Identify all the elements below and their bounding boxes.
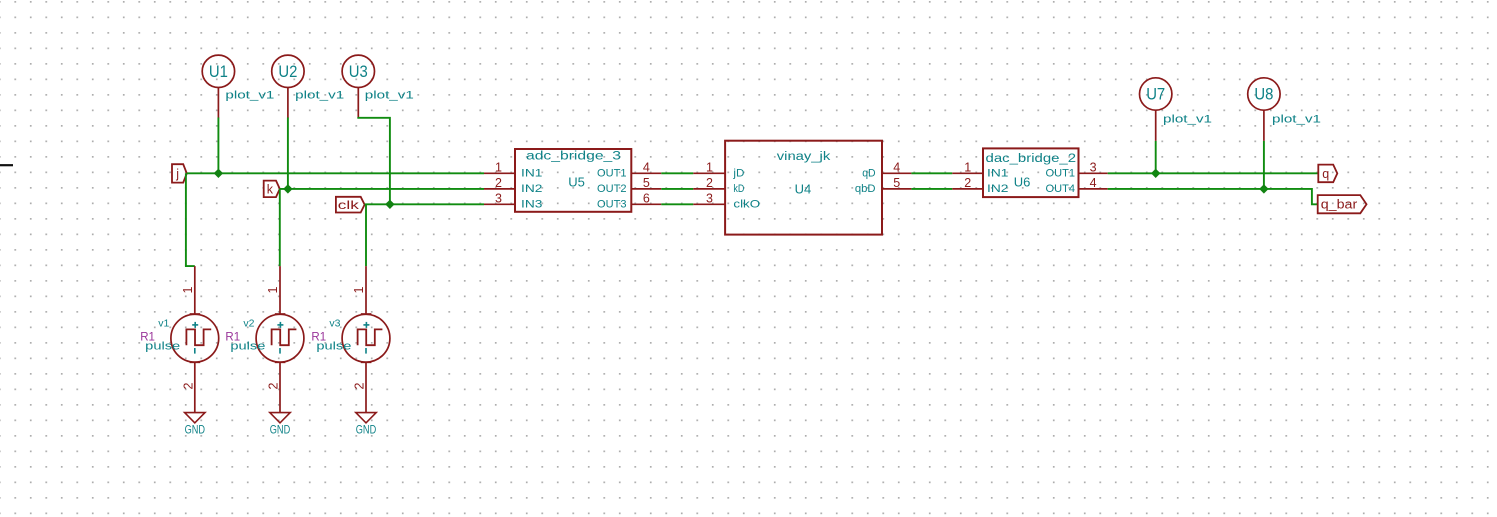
minus mark v1 bbox=[194, 348, 196, 354]
svg-text:qbD: qbD bbox=[855, 183, 876, 195]
svg-text:plot_v1: plot_v1 bbox=[225, 89, 274, 101]
svg-text:2: 2 bbox=[353, 382, 367, 389]
global label k bbox=[264, 181, 280, 198]
pin stub of U3 bbox=[357, 88, 359, 119]
U5 pin 1 stub bbox=[484, 172, 515, 174]
svg-text:plot_v1: plot_v1 bbox=[1272, 114, 1321, 126]
svg-text:1: 1 bbox=[964, 160, 971, 174]
svg-text:OUT2: OUT2 bbox=[597, 183, 627, 195]
svg-text:2: 2 bbox=[706, 176, 713, 190]
U4 pin 2 stub bbox=[693, 188, 725, 190]
svg-text:U6: U6 bbox=[1014, 175, 1031, 190]
pin 2 stub v1 bbox=[194, 362, 196, 412]
svg-text:j: j bbox=[175, 167, 179, 181]
svg-text:1: 1 bbox=[266, 286, 280, 293]
U6 pin 1 stub bbox=[952, 172, 983, 174]
svg-text:2: 2 bbox=[495, 176, 502, 190]
IC U5 adc_bridge_3 body bbox=[515, 149, 631, 212]
svg-text:pulse: pulse bbox=[145, 340, 180, 352]
svg-text:2: 2 bbox=[964, 176, 971, 190]
svg-text:pulse: pulse bbox=[316, 340, 351, 352]
svg-text:q_bar: q_bar bbox=[1321, 198, 1358, 212]
pulse waveform v2 bbox=[272, 329, 297, 345]
wire net j bbox=[187, 172, 484, 174]
ground symbol of v1 bbox=[185, 413, 205, 423]
svg-text:GND: GND bbox=[185, 424, 205, 436]
U6 pin 2 stub bbox=[952, 188, 983, 190]
minus mark v2 bbox=[279, 348, 281, 354]
junction clk/U3 bbox=[385, 200, 394, 209]
svg-text:vinay_jk: vinay_jk bbox=[777, 151, 831, 163]
svg-text:OUT1: OUT1 bbox=[1046, 168, 1076, 180]
svg-text:2: 2 bbox=[267, 382, 281, 389]
terminal bars v1 bbox=[190, 313, 201, 315]
U5 pin 5 stub bbox=[631, 188, 661, 190]
ground symbol of v2 bbox=[270, 413, 290, 423]
pin stub of U7 bbox=[1155, 110, 1157, 141]
wire qbD-in2 bbox=[911, 188, 952, 190]
svg-text:4: 4 bbox=[1090, 176, 1097, 190]
U6 pin 3 stub bbox=[1079, 172, 1108, 174]
svg-text:IN2: IN2 bbox=[987, 183, 1008, 195]
wire U7 drop to q net bbox=[1155, 141, 1157, 173]
wire out3-clko bbox=[661, 203, 693, 205]
junction k/U2 bbox=[283, 184, 292, 193]
wire k to V2 bbox=[279, 189, 281, 266]
svg-text:IN2: IN2 bbox=[521, 183, 542, 195]
svg-text:2: 2 bbox=[182, 382, 196, 389]
wire U3 drop jog bbox=[358, 117, 390, 204]
junction q/U7 bbox=[1151, 169, 1160, 178]
pulse source v2 bbox=[256, 314, 304, 362]
svg-text:plot_v1: plot_v1 bbox=[365, 89, 414, 101]
pin 2 stub v2 bbox=[279, 362, 281, 412]
svg-text:OUT3: OUT3 bbox=[597, 199, 627, 211]
svg-text:adc_bridge_3: adc_bridge_3 bbox=[526, 151, 621, 163]
wire net q bbox=[1108, 172, 1319, 174]
wire out2-kd bbox=[661, 188, 693, 190]
svg-text:6: 6 bbox=[643, 191, 650, 205]
svg-text:clkO: clkO bbox=[733, 199, 760, 211]
svg-text:U8: U8 bbox=[1254, 86, 1273, 104]
svg-text:kD: kD bbox=[733, 183, 744, 195]
svg-text:5: 5 bbox=[893, 176, 900, 190]
probe U8 bbox=[1248, 78, 1280, 110]
wire qD-in1 bbox=[911, 172, 952, 174]
svg-text:1: 1 bbox=[495, 160, 502, 174]
wire U8 drop to q_bar net bbox=[1263, 141, 1265, 189]
svg-text:v3: v3 bbox=[329, 317, 340, 329]
svg-text:1: 1 bbox=[352, 286, 366, 293]
pin 1 stub v1 bbox=[194, 266, 196, 314]
minus mark v3 bbox=[365, 348, 367, 354]
wire U1 drop to j net bbox=[217, 118, 219, 174]
pulse source v3 bbox=[342, 314, 390, 362]
global label j bbox=[172, 164, 187, 182]
svg-text:IN3: IN3 bbox=[521, 199, 542, 211]
svg-text:U2: U2 bbox=[278, 63, 297, 81]
pin stub of U2 bbox=[287, 88, 289, 119]
svg-text:GND: GND bbox=[270, 424, 290, 436]
svg-text:plot_v1: plot_v1 bbox=[295, 89, 344, 101]
svg-text:U5: U5 bbox=[568, 175, 585, 190]
svg-text:v2: v2 bbox=[243, 317, 254, 329]
pin 1 stub v2 bbox=[279, 266, 281, 314]
global label q_bar bbox=[1318, 195, 1367, 213]
wire net k bbox=[280, 188, 484, 190]
svg-text:1: 1 bbox=[181, 286, 195, 293]
sheet border mark bbox=[0, 164, 13, 166]
junction j/U1 bbox=[214, 169, 223, 178]
junction q_bar/U8 bbox=[1259, 184, 1268, 193]
U4 pin 1 stub bbox=[693, 172, 725, 174]
wire U2 drop to k net bbox=[287, 118, 289, 189]
svg-text:3: 3 bbox=[706, 191, 713, 205]
svg-text:4: 4 bbox=[893, 160, 900, 174]
pin 1 stub v3 bbox=[365, 266, 367, 314]
svg-text:OUT4: OUT4 bbox=[1046, 183, 1076, 195]
pin 2 stub v3 bbox=[365, 362, 367, 412]
U4 pin 3 stub bbox=[693, 203, 725, 205]
global label q bbox=[1318, 165, 1337, 183]
svg-text:IN1: IN1 bbox=[987, 168, 1008, 180]
U4 pin 4 stub bbox=[882, 172, 911, 174]
U5 pin 2 stub bbox=[484, 188, 515, 190]
svg-text:1: 1 bbox=[706, 160, 713, 174]
global label clk bbox=[336, 197, 365, 213]
wire net clk bbox=[365, 203, 484, 205]
pulse source v1 bbox=[171, 314, 219, 362]
wire clk to V3 bbox=[365, 204, 367, 266]
svg-text:U4: U4 bbox=[795, 182, 812, 197]
svg-text:OUT1: OUT1 bbox=[597, 168, 627, 180]
svg-text:U1: U1 bbox=[209, 63, 228, 81]
svg-text:v1: v1 bbox=[158, 317, 169, 329]
svg-text:U7: U7 bbox=[1146, 86, 1165, 104]
wire j to V1 bbox=[186, 173, 195, 266]
wire net q_bar bbox=[1108, 189, 1318, 204]
pin stub of U1 bbox=[217, 88, 219, 119]
U5 pin 4 stub bbox=[631, 172, 661, 174]
U4 pin 5 stub bbox=[882, 188, 911, 190]
pulse waveform v1 bbox=[186, 329, 211, 345]
terminal bars v2 bbox=[275, 313, 286, 315]
probe U2 bbox=[272, 55, 304, 87]
U6 pin 4 stub bbox=[1079, 188, 1108, 190]
terminal bars v3 bbox=[361, 313, 372, 315]
svg-text:q: q bbox=[1322, 167, 1329, 181]
plus mark v2 bbox=[277, 324, 283, 326]
svg-text:IN1: IN1 bbox=[521, 168, 542, 180]
svg-text:3: 3 bbox=[495, 191, 502, 205]
plus mark v3 bbox=[363, 324, 369, 326]
wire out1-jd bbox=[661, 172, 693, 174]
ground symbol of v3 bbox=[356, 413, 376, 423]
U5 pin 3 stub bbox=[484, 203, 515, 205]
svg-text:pulse: pulse bbox=[230, 340, 265, 352]
svg-text:k: k bbox=[267, 182, 274, 196]
svg-text:clk: clk bbox=[338, 198, 360, 212]
svg-text:5: 5 bbox=[643, 176, 650, 190]
probe U3 bbox=[342, 55, 374, 87]
svg-text:3: 3 bbox=[1090, 160, 1097, 174]
IC U6 dac_bridge_2 body bbox=[983, 148, 1079, 197]
svg-text:4: 4 bbox=[643, 160, 650, 174]
probe U7 bbox=[1140, 78, 1172, 110]
svg-text:U3: U3 bbox=[349, 63, 368, 81]
probe U1 bbox=[202, 55, 234, 87]
svg-text:GND: GND bbox=[356, 424, 376, 436]
plus mark v1 bbox=[192, 324, 198, 326]
pin stub of U8 bbox=[1263, 110, 1265, 141]
svg-text:dac_bridge_2: dac_bridge_2 bbox=[986, 153, 1077, 165]
IC U4 vinay_jk body bbox=[725, 141, 882, 235]
svg-text:plot_v1: plot_v1 bbox=[1163, 114, 1212, 126]
svg-text:jD: jD bbox=[732, 168, 744, 180]
svg-text:qD: qD bbox=[862, 168, 875, 180]
U5 pin 6 stub bbox=[631, 203, 661, 205]
pulse waveform v3 bbox=[358, 329, 383, 345]
